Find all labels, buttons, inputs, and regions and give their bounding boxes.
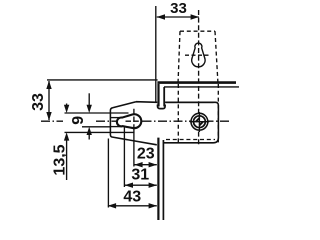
dimension 23: line + arrowheads [134,164,156,166]
keyhole horizontal center line (dashed) [185,54,211,56]
mounting plate front view (dashed trapezoid) [178,31,218,84]
dimension 33 left: line [48,81,50,120]
cabinet side panel: inner line [162,140,164,220]
screw slot diagonal line upper [196,118,200,122]
dimension 33 top: left arrowhead [157,14,165,19]
hinge arm outline [110,102,213,145]
dimension 33 left: bottom arrowhead [46,112,51,120]
svg-text:23: 23 [137,146,155,163]
hinge arm slot top line [110,117,122,119]
screw cross horizontal [190,121,209,123]
projection line left (dashed) [177,84,179,143]
dimension 13.5: lower segment + up arrowhead [66,139,68,180]
svg-text:31: 31 [131,167,149,184]
extension line C (arm bottom surface) [65,131,135,133]
svg-text:33: 33 [170,0,187,17]
svg-text:9: 9 [70,116,87,125]
door panel section: thin inner line [164,86,239,88]
center line vertical (dashed) [198,10,200,146]
dimension 31: line + arrowheads [125,184,157,186]
cabinet side panel: front line [157,138,159,220]
extension line A (arm top surface) [65,112,129,114]
dimension 9: lower segment + up arrowhead [88,134,90,140]
svg-text:33: 33 [30,93,47,111]
dimension 43: line + arrowheads [108,205,157,207]
cam vertical center line dashes [133,109,135,133]
keyhole slot front view (pear outline) [192,43,205,67]
mounting plate hidden bottom edge (dashed) [166,139,215,141]
main horizontal center line left segment (dash-dot) [41,120,63,122]
cam horizontal center line dashes [126,120,143,122]
extension line B (slot bottom) [82,126,111,128]
extension line vertical (front edge reference) [155,6,157,102]
extension line from cam center down [133,130,135,167]
cam keyhole (horizontal pear outline) [117,114,141,128]
door panel section: thick top line [157,81,236,84]
door panel section: rounded end cap [158,105,166,109]
main horizontal center line right segment (dash-dot) [96,120,231,122]
screw cross vertical [198,112,200,132]
door panel section: left edge [157,84,159,107]
projection line right (dashed) [217,84,219,143]
dimension 33 top: line [157,16,199,18]
screw slot diagonal line lower [199,122,203,126]
screw: inner circle [194,116,206,128]
hinge arm slot bottom line [110,126,122,128]
extension line from small circle down [123,128,125,188]
screw: outer circle [191,113,208,130]
dimension 13.5: upper segment + down arrowhead [66,104,68,107]
mounting plate side view outline [164,102,218,143]
dimension 9: upper segment + down arrowhead [88,93,90,106]
door panel section: inner edge [163,87,165,107]
svg-text:13,5: 13,5 [52,144,69,175]
horizontal extension line (top reference for left 33) [47,79,158,81]
svg-text:43: 43 [123,189,141,206]
dimension 33 top: right arrowhead [191,14,199,19]
extension line from arm end down [107,139,109,208]
dimension 33 left: top arrowhead [46,81,51,89]
